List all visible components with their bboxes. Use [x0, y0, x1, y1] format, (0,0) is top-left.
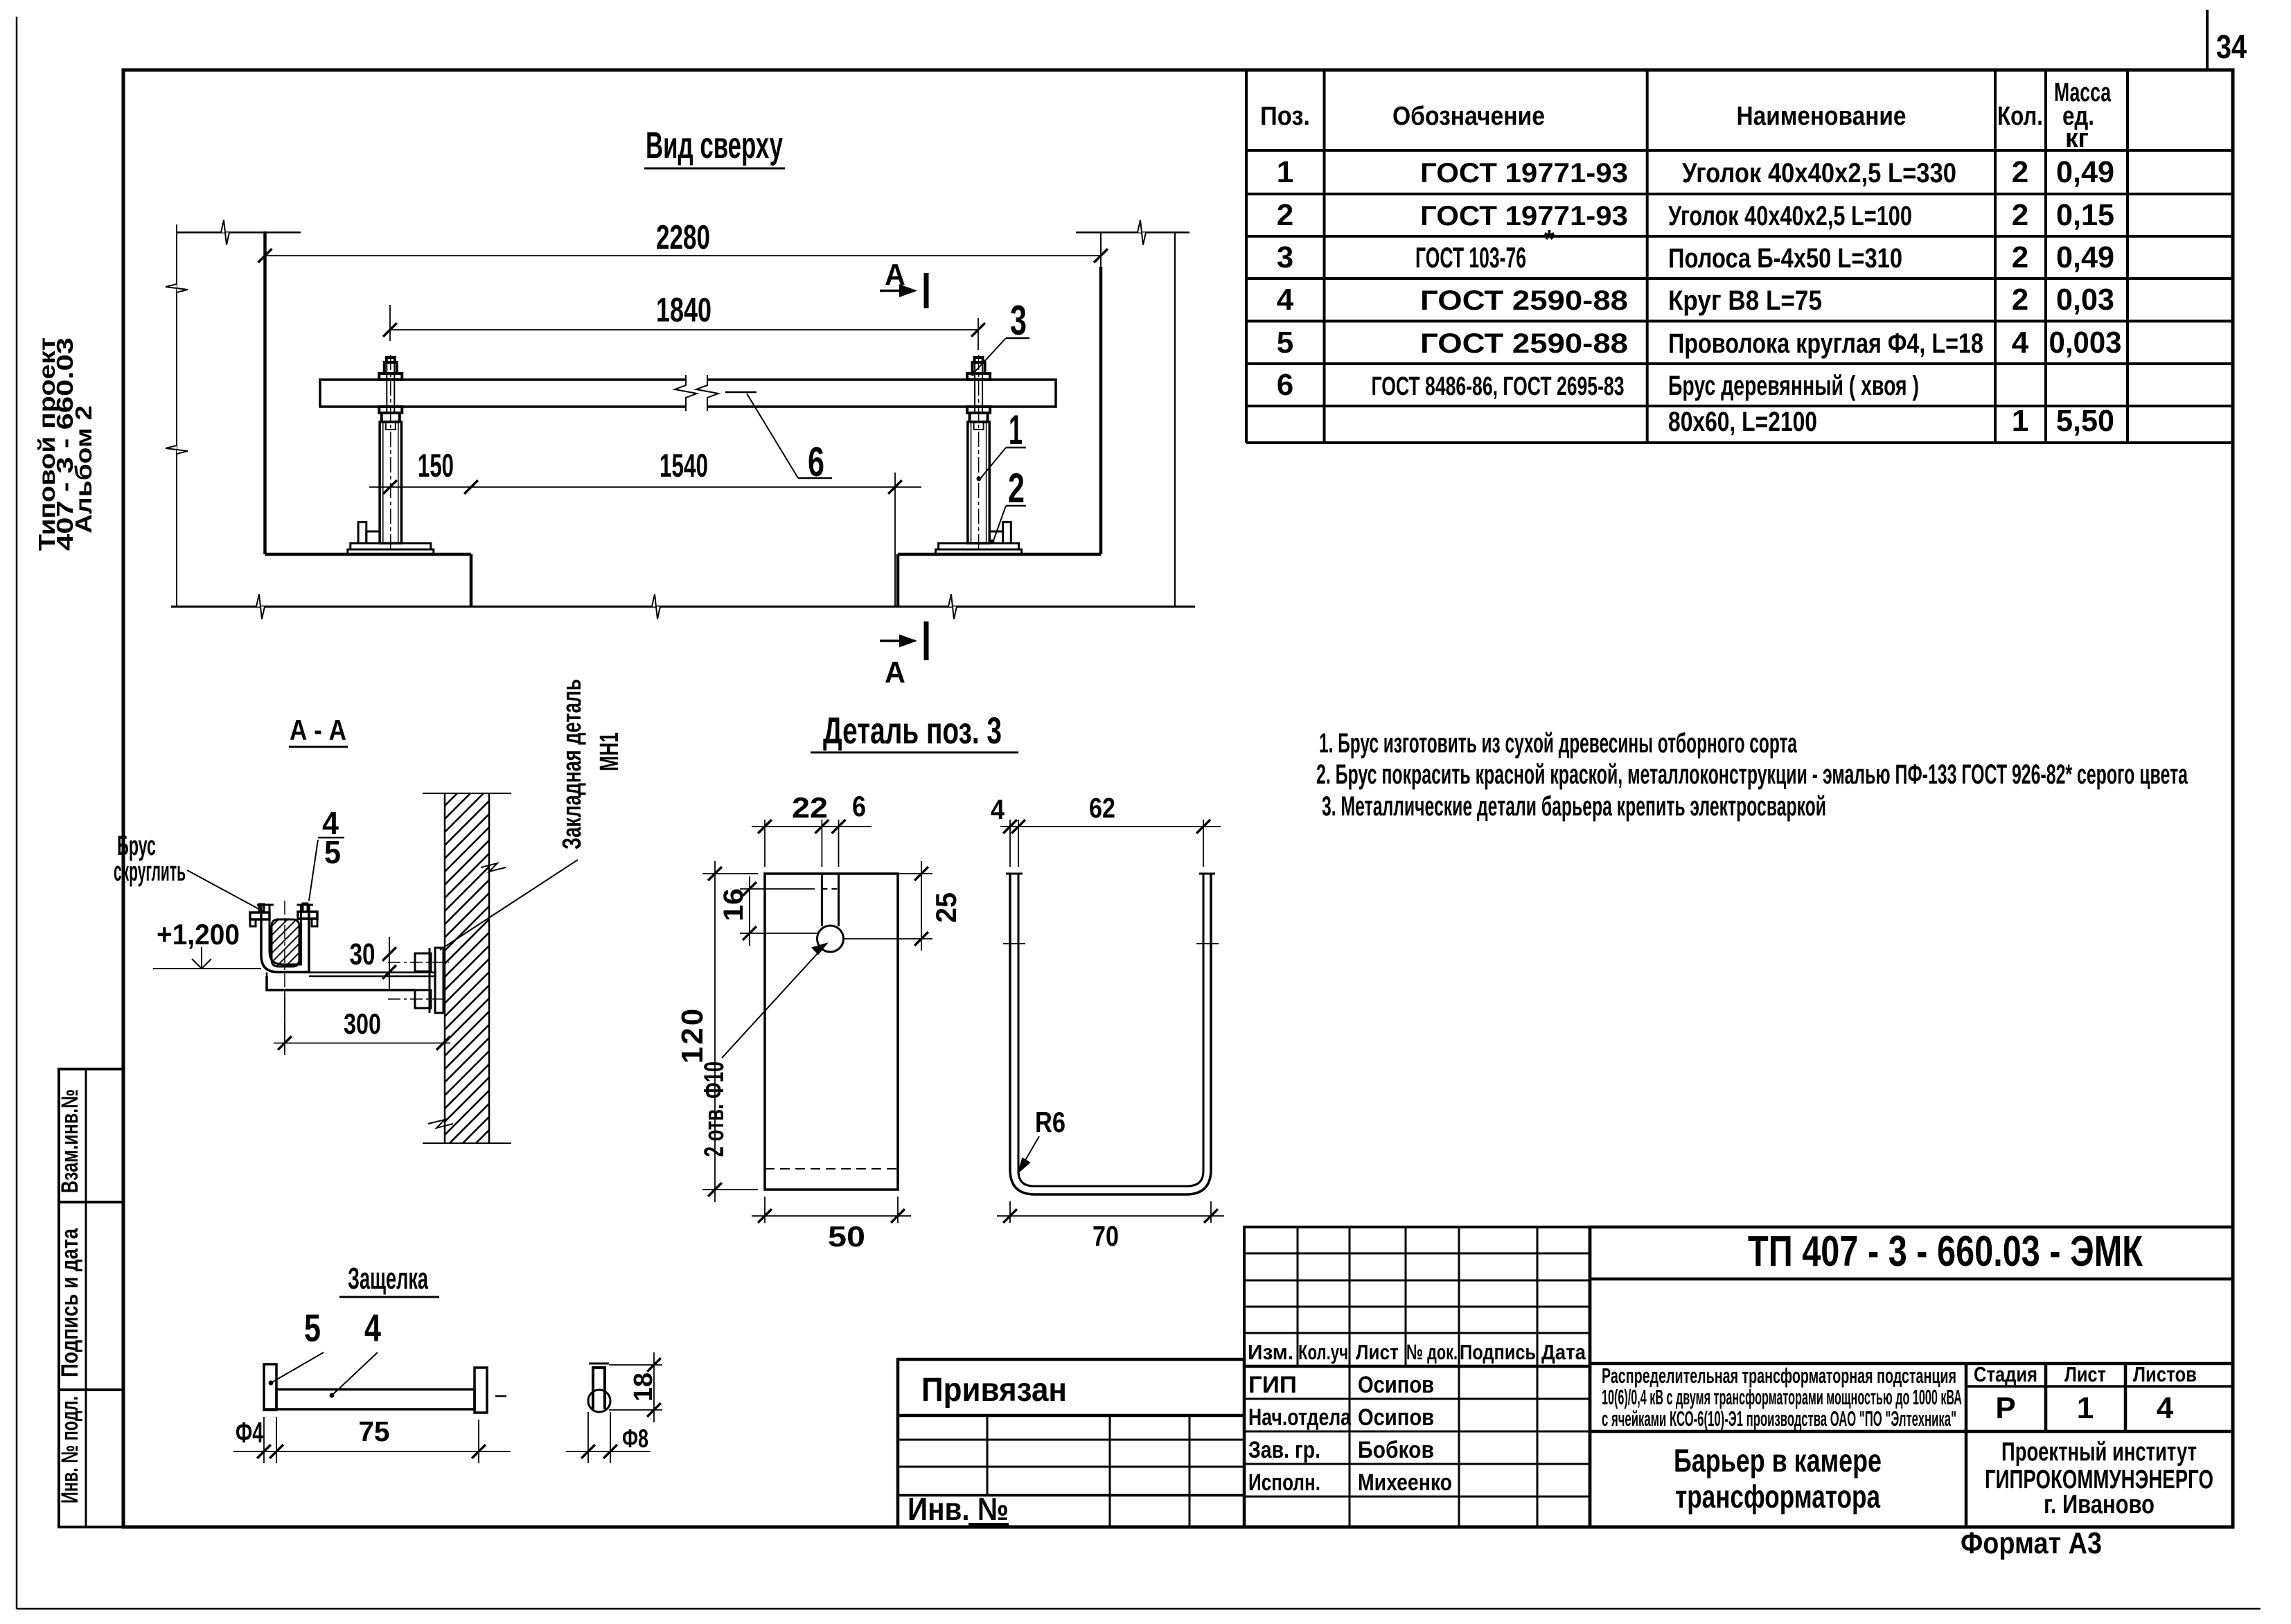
svg-text:Осипов: Осипов — [1358, 1372, 1434, 1398]
post washer on beam — [967, 373, 990, 380]
svg-text:2: 2 — [1277, 198, 1293, 232]
svg-text:Брус деревянный ( хвоя ): Брус деревянный ( хвоя ) — [1668, 371, 1919, 401]
svg-text:Ф8: Ф8 — [622, 1424, 648, 1453]
dimension Ф4 and 75 — [263, 1417, 265, 1463]
svg-text:Стадия: Стадия — [1974, 1362, 2037, 1386]
post bolt head — [384, 362, 397, 373]
wall section bottom cap — [423, 1142, 511, 1144]
wall top edge right — [1076, 231, 1189, 233]
post bolt head — [973, 362, 985, 373]
svg-text:Закладная деталь: Закладная деталь — [558, 679, 587, 849]
svg-text:5,50: 5,50 — [2056, 404, 2114, 438]
bent strap side view U shape — [1010, 874, 1211, 1194]
svg-text:Лист: Лист — [2064, 1362, 2106, 1386]
right pilaster ledge — [898, 553, 1101, 556]
svg-text:4: 4 — [1277, 283, 1294, 317]
svg-text:Деталь поз. 3: Деталь поз. 3 — [823, 710, 1002, 752]
title block middle divider — [1590, 1362, 2233, 1366]
svg-text:0,003: 0,003 — [2049, 326, 2122, 360]
svg-text:2280: 2280 — [656, 219, 710, 256]
svg-text:Привязан: Привязан — [921, 1372, 1067, 1409]
svg-text:ГОСТ 19771-93: ГОСТ 19771-93 — [1420, 201, 1628, 231]
label 2 with leader — [1006, 505, 1026, 507]
slot — [821, 874, 823, 926]
svg-text:Уголок 40х40х2,5 L=330: Уголок 40х40х2,5 L=330 — [1682, 158, 1956, 188]
svg-text:2. Брус покрасить красной крас: 2. Брус покрасить красной краской, метал… — [1316, 759, 2188, 790]
svg-text:2: 2 — [2012, 240, 2028, 274]
small dash mark — [495, 1395, 506, 1397]
svg-text:4: 4 — [364, 1306, 381, 1350]
section mark A top — [924, 273, 929, 308]
beam cross section hatched — [272, 919, 299, 967]
latch end plate right — [475, 1368, 487, 1413]
signature rows grid — [1244, 1365, 1590, 1368]
svg-text:30: 30 — [350, 937, 375, 971]
dimension line 150 and 1540 — [369, 486, 921, 488]
svg-text:ГОСТ 8486-86, ГОСТ 2695-83: ГОСТ 8486-86, ГОСТ 2695-83 — [1372, 372, 1625, 401]
hole Ф10 — [817, 926, 844, 952]
post centerline — [978, 355, 980, 554]
svg-text:1: 1 — [2012, 404, 2028, 438]
svg-text:Защелка: Защелка — [348, 1262, 428, 1296]
dimension 30 — [389, 937, 390, 989]
wooden beam poz.6 left part — [320, 380, 686, 407]
post column poz.1 — [968, 422, 989, 543]
wall outer edge line right — [1174, 233, 1176, 607]
svg-text:10(6)/0,4 кВ с двумя трансформ: 10(6)/0,4 кВ с двумя трансформаторами мо… — [1602, 1385, 1962, 1409]
svg-text:1. Брус изготовить из сухой др: 1. Брус изготовить из сухой древесины от… — [1319, 728, 1797, 759]
svg-text:1840: 1840 — [656, 292, 711, 329]
svg-text:Кол.уч: Кол.уч — [1298, 1340, 1348, 1364]
svg-text:ГОСТ 2590-88: ГОСТ 2590-88 — [1420, 285, 1628, 316]
svg-text:0,49: 0,49 — [2056, 240, 2114, 274]
svg-text:1: 1 — [2077, 1391, 2094, 1425]
latch side view wire eye Ф8 — [588, 1390, 610, 1412]
paper edge thin border left — [16, 17, 18, 1609]
beam section centerline — [284, 901, 285, 1055]
svg-text:22: 22 — [792, 791, 828, 824]
dimension 18 — [609, 1364, 662, 1366]
section mark A bottom — [924, 621, 929, 660]
svg-text:Круг В8 L=75: Круг В8 L=75 — [1668, 285, 1822, 316]
beam break lines — [675, 375, 697, 411]
right pilaster step — [896, 554, 900, 607]
post nut — [382, 413, 400, 422]
svg-text:Бобков: Бобков — [1358, 1437, 1434, 1463]
svg-text:6: 6 — [1277, 368, 1293, 402]
left pilaster ledge — [265, 553, 472, 556]
stamp column left of frame — [59, 1069, 123, 1527]
dimension 300 — [284, 993, 285, 1055]
leader line poz.6 — [747, 394, 798, 478]
svg-text:Инв. №: Инв. № — [908, 1491, 1009, 1527]
svg-text:Р: Р — [1995, 1391, 2015, 1425]
svg-text:Подпись: Подпись — [1460, 1340, 1536, 1364]
U-strap holder poz.3 section — [261, 905, 309, 972]
svg-text:0,49: 0,49 — [2056, 155, 2114, 189]
svg-text:Проволока круглая Ф4, L=18: Проволока круглая Ф4, L=18 — [1668, 328, 1983, 359]
horizontal strap lines — [309, 971, 436, 973]
svg-text:62: 62 — [1089, 792, 1115, 824]
angle bracket horizontal flange — [267, 976, 415, 990]
dimension 4 — [1009, 820, 1011, 867]
latch end plate left poz.5 — [264, 1364, 276, 1410]
post centerline — [390, 355, 391, 554]
svg-text:Изм.: Изм. — [1248, 1340, 1293, 1364]
svg-text:0,03: 0,03 — [2056, 283, 2114, 317]
post base plate poz.3 strap — [351, 543, 431, 549]
left wall inner face — [263, 231, 267, 554]
svg-text:3. Металлические детали барьер: 3. Металлические детали барьера крепить … — [1322, 791, 1826, 822]
angle bracket vertical leg and embedded plate MN1 — [429, 948, 431, 1013]
wall break marks — [481, 863, 506, 872]
title block right document number box — [1590, 1227, 2233, 1527]
svg-text:300: 300 — [344, 1007, 381, 1040]
svg-text:R6: R6 — [1035, 1106, 1065, 1138]
sheet number tick top right — [2206, 10, 2209, 70]
svg-text:А - А: А - А — [290, 714, 346, 746]
svg-text:ГИП: ГИП — [1248, 1372, 1297, 1398]
svg-text:Взам.инв.№: Взам.инв.№ — [57, 1089, 83, 1193]
strap development rectangle — [765, 874, 898, 1190]
post base plate poz.3 strap — [939, 543, 1019, 549]
svg-text:6: 6 — [808, 439, 824, 485]
right wall extension line — [1100, 233, 1102, 267]
svg-text:скруглить: скруглить — [114, 856, 186, 887]
right wall inner face — [1099, 267, 1103, 554]
post washer on beam — [379, 373, 402, 380]
svg-text:Нач.отдела: Нач.отдела — [1248, 1404, 1352, 1431]
svg-text:70: 70 — [1093, 1220, 1119, 1252]
parts table grid — [1245, 70, 1248, 443]
svg-text:2: 2 — [2012, 283, 2028, 317]
svg-text:Осипов: Осипов — [1358, 1404, 1434, 1431]
dimension 22 — [752, 826, 872, 827]
svg-text:Исполн.: Исполн. — [1248, 1469, 1320, 1496]
svg-text:2: 2 — [2012, 155, 2028, 189]
dimension 120 — [702, 873, 758, 874]
svg-text:г. Иваново: г. Иваново — [2044, 1490, 2155, 1519]
stage sheet columns — [1965, 1363, 1968, 1527]
wooden beam poz.6 right part — [707, 380, 1056, 407]
bolt heads at wall — [415, 953, 431, 971]
svg-text:Листов: Листов — [2133, 1362, 2197, 1386]
svg-text:А: А — [885, 258, 905, 292]
dimension 62 — [1203, 820, 1204, 867]
dimension 16 — [740, 888, 815, 890]
dimension 25 — [898, 873, 932, 874]
dimension Ф8 — [587, 1412, 589, 1463]
svg-text:3: 3 — [1277, 240, 1293, 274]
svg-text:5: 5 — [304, 1306, 321, 1350]
svg-text:6: 6 — [852, 790, 866, 822]
svg-text:Кол.: Кол. — [1997, 102, 2043, 131]
svg-text:3: 3 — [1010, 297, 1027, 344]
svg-text:18: 18 — [629, 1373, 658, 1402]
svg-text:Ф4: Ф4 — [236, 1416, 263, 1449]
post bolt shaft — [974, 362, 975, 413]
svg-text:25: 25 — [930, 892, 962, 923]
svg-text:МН1: МН1 — [595, 732, 624, 771]
svg-text:Дата: Дата — [1541, 1340, 1586, 1364]
svg-text:Формат А3: Формат А3 — [1961, 1526, 2102, 1560]
paper edge thin border bottom — [17, 1608, 2261, 1610]
svg-text:с ячейками КСО-6(10)-Э1 произв: с ячейками КСО-6(10)-Э1 производства ОАО… — [1602, 1406, 1956, 1431]
dimension 6 — [832, 820, 846, 833]
svg-text:75: 75 — [359, 1415, 390, 1447]
svg-text:2 отв. Ф10: 2 отв. Ф10 — [699, 1061, 729, 1157]
dimension 50 — [764, 1197, 766, 1223]
post bolt shaft — [386, 362, 387, 413]
svg-text:4: 4 — [991, 795, 1005, 825]
svg-text:50: 50 — [828, 1220, 865, 1253]
svg-text:Инв. № подл.: Инв. № подл. — [57, 1396, 83, 1503]
latch bar poz.4 — [276, 1389, 475, 1409]
svg-text:*: * — [1544, 225, 1555, 254]
wall section hatched band — [445, 793, 489, 1143]
svg-text:5: 5 — [324, 834, 341, 870]
svg-text:ГОСТ 2590-88: ГОСТ 2590-88 — [1420, 328, 1628, 359]
post nut — [970, 413, 988, 422]
svg-text:Проектный институт: Проектный институт — [2001, 1438, 2197, 1467]
svg-text:Распределительная трансформато: Распределительная трансформаторная подст… — [1602, 1363, 1956, 1388]
svg-text:4: 4 — [2157, 1391, 2174, 1425]
svg-text:Наименование: Наименование — [1737, 102, 1907, 131]
svg-text:Обозначение: Обозначение — [1392, 102, 1545, 131]
svg-text:Поз.: Поз. — [1260, 102, 1310, 131]
post bolt nub — [975, 358, 983, 362]
svg-text:2: 2 — [1008, 465, 1025, 511]
svg-text:Лист: Лист — [1356, 1340, 1399, 1364]
label 1 with leader — [1006, 447, 1026, 449]
svg-text:кг: кг — [2065, 124, 2089, 153]
svg-text:Полоса Б-4х50 L=310: Полоса Б-4х50 L=310 — [1668, 243, 1902, 274]
svg-text:4: 4 — [2012, 326, 2029, 360]
svg-text:5: 5 — [1277, 326, 1293, 360]
label 3 with leader — [1006, 337, 1029, 339]
latch bracket poz.2 left — [358, 522, 366, 543]
svg-text:34: 34 — [2216, 29, 2247, 66]
svg-text:Альбом 2: Альбом 2 — [71, 405, 96, 533]
bend line dashed — [765, 1168, 898, 1170]
svg-text:№ док.: № док. — [1406, 1340, 1458, 1364]
left pilaster step — [470, 554, 473, 607]
latch side view staple — [593, 1368, 605, 1409]
svg-text:1: 1 — [1277, 155, 1293, 189]
svg-text:+1,200: +1,200 — [157, 918, 240, 951]
latch bracket poz.2 right — [1003, 522, 1011, 543]
wire hook right poz.4 — [303, 903, 308, 912]
svg-text:А: А — [885, 655, 905, 689]
svg-text:1540: 1540 — [660, 447, 708, 484]
svg-text:1: 1 — [1009, 407, 1023, 453]
svg-text:150: 150 — [418, 447, 454, 484]
leader mark on beam for poz.6 — [725, 391, 757, 394]
wall section top cap — [423, 793, 511, 794]
wall outer edge line left — [176, 224, 177, 607]
dimension 2280 — [265, 255, 1102, 256]
title block left part lower grid — [898, 1439, 1244, 1441]
svg-text:трансформатора: трансформатора — [1675, 1479, 1880, 1515]
svg-text:120: 120 — [675, 1007, 709, 1063]
post bolt nub — [387, 358, 395, 362]
svg-text:0,15: 0,15 — [2056, 198, 2114, 232]
wire hook left poz.5 — [259, 904, 264, 912]
bottom wall face — [171, 606, 1195, 608]
svg-text:Подпись и дата: Подпись и дата — [57, 1228, 83, 1377]
title block small revision grid — [1244, 1227, 1590, 1366]
wall top edge left — [177, 231, 301, 233]
dimension 70 — [1009, 1201, 1011, 1223]
svg-text:ТП 407 - 3 - 660.03 - ЭМК: ТП 407 - 3 - 660.03 - ЭМК — [1748, 1228, 2143, 1276]
post washer under beam — [379, 407, 402, 413]
svg-text:Вид сверху: Вид сверху — [646, 125, 783, 166]
svg-text:ГОСТ 19771-93: ГОСТ 19771-93 — [1420, 158, 1628, 188]
svg-text:Барьер в камере: Барьер в камере — [1674, 1442, 1882, 1479]
svg-text:80х60, L=2100: 80х60, L=2100 — [1668, 407, 1817, 437]
dimension 1840 — [390, 329, 978, 330]
svg-text:ГОСТ 103-76: ГОСТ 103-76 — [1415, 241, 1526, 274]
svg-text:Уголок 40х40х2,5 L=100: Уголок 40х40х2,5 L=100 — [1668, 201, 1912, 231]
title block left part box Привязан — [898, 1359, 1244, 1527]
svg-text:16: 16 — [718, 888, 749, 921]
post column poz.1 — [380, 422, 401, 543]
svg-text:2: 2 — [2012, 198, 2028, 232]
post washer under beam — [967, 407, 990, 413]
svg-text:Зав. гр.: Зав. гр. — [1248, 1437, 1320, 1463]
svg-text:Михеенко: Михеенко — [1358, 1469, 1452, 1496]
hole center marks — [1003, 943, 1025, 944]
